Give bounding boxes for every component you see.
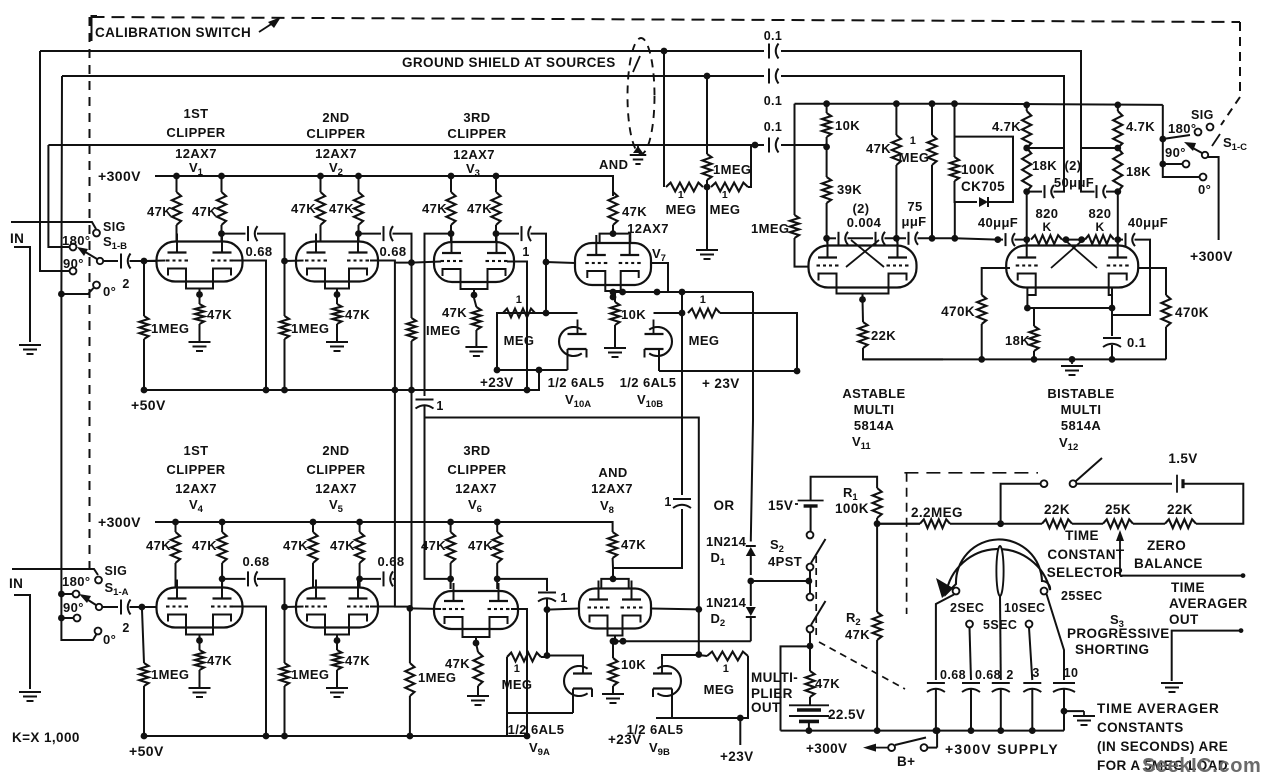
svg-text:(IN SECONDS) ARE: (IN SECONDS) ARE [1097,739,1228,754]
svg-text:2: 2 [122,277,129,291]
svg-text:SIG: SIG [1191,108,1214,122]
svg-text:820: 820 [1089,206,1112,221]
resistor 1 MEG (V10B load) [688,309,720,318]
capacitor 0.1 (bistable cathode) [1111,308,1113,336]
resistor 47K (V8 plate) [608,532,617,558]
resistor 1MEG (V3 grid leak) [411,263,413,318]
V8 right grid [621,606,625,608]
svg-text:47K: 47K [192,538,217,553]
svg-text:+300V: +300V [98,514,141,530]
svg-text:μμF: μμF [901,214,926,229]
svg-text:MEG: MEG [689,333,720,348]
switch S2 section1 [807,532,814,539]
svg-text:1: 1 [436,399,443,413]
ground at shield [633,146,643,153]
svg-text:1/2 6AL5: 1/2 6AL5 [548,375,605,390]
V1 right plate [221,234,223,253]
wire 90 to common [61,617,73,619]
arrow to dashed line [259,21,276,32]
S3 rotor pointer [996,546,1003,596]
svg-text:3RD: 3RD [463,443,490,458]
resistor 47K (V4 right plate) [218,532,227,563]
ground (V7 cathode) [604,347,626,349]
svg-text:PROGRESSIVE: PROGRESSIVE [1067,626,1170,641]
svg-text:22K: 22K [1044,502,1070,517]
V7 cathode common [605,284,620,291]
svg-text:AVERAGER: AVERAGER [1169,596,1248,611]
wire IN terminal to ground (lower) [14,595,30,689]
wire V9B plate feed [662,655,699,659]
resistor 10K (V7 cathode) [614,292,616,302]
svg-text:0.68: 0.68 [380,244,407,259]
svg-text:IMEG: IMEG [426,323,461,338]
V4 right plate [221,580,223,599]
ground (V8 cathode) [602,693,624,695]
V2 right cathode [349,269,367,282]
svg-text:100K: 100K [961,162,995,177]
resistor 4.7K (bistable left) [1026,105,1028,111]
switch S1-A 180 contact [73,591,80,598]
V3 left cathode [443,269,461,282]
capacitor 0.68 (2 sec) [927,682,945,684]
svg-text:CLIPPER: CLIPPER [447,126,506,141]
tube envelope V1 [157,242,243,282]
wire line A drop to MEG divider [663,51,665,187]
wire R1 node to 2.2MEG line [877,523,920,525]
V11 left cathode [819,274,837,287]
svg-text:0°: 0° [103,284,116,299]
resistor 4.7K (bistable right) [1117,105,1119,111]
wire 180 to common [61,593,72,595]
resistor 47K (multiplier) [809,646,811,671]
V1 left grid [166,259,170,261]
wire zero balance out [1120,575,1245,577]
wire S2 to multiplier node [809,632,811,646]
svg-text:0.68: 0.68 [975,668,1001,682]
svg-text:CONSTANT: CONSTANT [1047,547,1125,562]
ground (V1 cathode) [189,341,211,343]
wire +300V bus (lower) [155,522,613,532]
wire line B drop to 1MEG [706,76,708,154]
capacitor 1 (V10B to V8) [673,498,691,500]
svg-text:1: 1 [722,189,728,201]
resistor 820K right [1085,235,1114,244]
svg-text:SHORTING: SHORTING [1075,642,1149,657]
svg-text:12AX7: 12AX7 [453,147,495,162]
battery 22.5V [809,697,811,705]
wire IN to S1-A SIG [12,569,98,575]
astable cross coupling [851,240,884,267]
wire divider to line C [748,145,751,187]
wire S2 s1 to junction [809,570,811,594]
S3 contact 2SEC [953,588,960,595]
capacitor 0.1 (line B) [768,69,770,84]
ground (cap bus) [1073,715,1095,717]
svg-text:10K: 10K [835,118,860,133]
wire V6 right plate to 1 cap [497,579,547,591]
ground shield dashed ellipse [628,38,655,154]
V4 cathode common [186,628,213,635]
resistor 1MEG (astable left) [790,215,799,238]
V3 right grid [486,260,490,262]
switch B+ contact right [921,744,928,751]
svg-text:SIG: SIG [105,564,128,578]
diode 1N214 D1 [750,540,752,542]
wire 75uuF to 40uuF [955,238,998,239]
capacitor 0.68 (5 sec) [962,682,980,684]
V2 right grid [347,259,351,261]
resistor 1MEG (V1 grid leak) [143,261,145,316]
svg-text:1: 1 [516,294,523,306]
wire V8 cathode line [613,640,751,642]
resistor 47K (V5 left plate) [308,532,317,563]
tube envelope V4 [157,588,243,628]
bistable cross coupling [1066,241,1097,268]
resistor 39K (astable) [826,147,828,177]
wire bistable cathode line [1027,288,1112,308]
wire cap to V6 grid [393,578,395,580]
resistor 100K [950,157,959,181]
wire V1 right grid return [233,261,267,391]
V5 right cathode [349,615,367,628]
ground (bistable) [1071,359,1073,364]
V11 left plate [827,238,829,258]
wire V8 left grid feed [547,609,579,610]
svg-text:2: 2 [122,621,129,635]
capacitor 2 (lower input) [120,600,122,615]
wire V2 return to V6 grid link [395,390,410,607]
svg-text:+300V: +300V [1190,248,1233,264]
wire V10B plate feed [654,312,683,314]
svg-text:5814A: 5814A [1061,418,1102,433]
svg-text:10SEC: 10SEC [1004,601,1046,615]
svg-text:180°: 180° [62,574,91,589]
svg-text:470K: 470K [1175,305,1209,320]
svg-text:+300V: +300V [806,741,847,756]
resistor 47K (V1 right plate) [217,192,226,225]
wire MEG right to +23V [720,313,797,371]
svg-text:SeekIC.com: SeekIC.com [1142,755,1261,777]
wire +300V bus (bottom) [781,730,1065,732]
svg-text:1.5V: 1.5V [1168,451,1197,466]
wire S1-C to +300V [1208,157,1219,240]
V8 left cathode [590,616,608,629]
svg-text:1MEG: 1MEG [751,221,789,236]
capacitor 0.004 left [838,232,840,245]
svg-text:12AX7: 12AX7 [455,481,497,496]
wire V3 left plate junction to lower channel [425,234,452,396]
resistor 47K (V3 cathode) [472,307,481,330]
wire MEG box left to +23V rail [497,313,503,370]
capacitor 40uuF left [998,239,1003,241]
switch S1-C 90 contact [1183,161,1190,168]
wire line C (cal switch to astable) [48,144,764,146]
resistor 47K (astable right) [895,104,897,135]
wire V2 left grid feed [285,260,304,263]
svg-text:2ND: 2ND [322,110,349,125]
resistor 1MEG (V6 grid leak) [409,608,411,663]
svg-text:0.68: 0.68 [940,668,966,682]
switch S1-C wiper [1202,152,1208,158]
capacitor 0.68 (V1-V2) [247,226,249,241]
svg-text:ASTABLE: ASTABLE [842,386,905,401]
V11 left grid [817,264,821,266]
resistor 22K (chain 2) [1165,519,1196,528]
V6 left grid [443,608,447,610]
wire V3 leak column to V6 grid [411,390,413,608]
switch S2 section2 [807,594,814,601]
V1 left plate [176,234,178,253]
svg-text:0°: 0° [103,632,116,647]
wire +23V rail (V10A) [497,369,568,371]
25K wiper arrow [1116,530,1124,541]
capacitor 0.1 (line A) [768,44,770,59]
svg-text:1: 1 [678,189,684,201]
V4 left plate [176,580,178,599]
capacitor 10 [1053,682,1075,684]
V3 cathode common [461,282,488,289]
svg-text:4PST: 4PST [768,554,802,569]
svg-text:0°: 0° [1198,182,1211,197]
resistor 47K (V6 left plate) [446,532,455,563]
resistor 1 MEG (V9B) [707,652,748,661]
wire battery to S2 contact [810,506,812,531]
V4 left cathode [168,615,186,628]
resistor 470K (bistable right grid) [1138,268,1166,295]
wire V10A plate feed [503,312,578,314]
svg-text:0.68: 0.68 [378,554,405,569]
wire line A drop to S1-B 90 [40,51,70,271]
V7 left plate [595,235,597,255]
svg-text:+300V SUPPLY: +300V SUPPLY [945,741,1059,757]
svg-text:50μμF: 50μμF [1054,175,1094,190]
switch S1-C SIG contact [1207,124,1214,131]
resistor 10K (V8 cathode) [612,641,614,658]
svg-text:12AX7: 12AX7 [175,146,217,161]
V1 right grid [211,259,215,261]
tube envelope V12 [1006,246,1138,288]
ground (time averager) [1161,682,1183,684]
wire V3 left grid feed [412,262,442,263]
resistor 22K (chain 1) [1042,519,1072,528]
S2 mechanical dashed link [815,556,817,640]
svg-text:K: K [1095,220,1104,234]
V6 left plate [453,583,455,601]
svg-text:OUT: OUT [751,700,781,715]
svg-text:+50V: +50V [131,397,166,413]
capacitor 2 (10 sec) [992,682,1010,684]
wire V6 right grid return [511,609,527,736]
wire cap to V5 grid [257,579,285,607]
V6 right plate [498,583,500,601]
svg-text:+300V: +300V [98,168,141,184]
wire V6 left grid feed [410,607,441,610]
wire +300V bus (upper) [155,176,613,196]
wire V8 right grid feed [651,608,699,611]
svg-text:47K: 47K [468,538,493,553]
V2 right plate [357,234,359,253]
wire V8 plates common [601,579,628,588]
wire 0 to common [61,618,96,640]
wire V7 cathode line [613,292,753,297]
svg-text:SIG: SIG [103,220,126,234]
svg-text:1: 1 [560,591,567,605]
switch S1-A 90 contact [74,615,81,622]
wire S3 contact drops [936,595,954,681]
svg-text:47K: 47K [467,201,492,216]
svg-text:GROUND SHIELD AT SOURCES: GROUND SHIELD AT SOURCES [402,55,616,70]
svg-text:1: 1 [514,663,521,675]
wire line C drop to S1-B 180 [48,145,70,247]
wire V2 right plate to cap [359,233,382,235]
V1 right cathode [213,269,231,282]
wire to 1.5V battery [1076,483,1172,485]
svg-text:0.1: 0.1 [764,29,783,43]
svg-text:47K: 47K [207,307,232,322]
calibration switch label bracket [92,16,98,41]
resistor 47K (V1 cathode) [195,304,204,324]
resistor 47K (V4 cathode) [195,650,204,670]
resistor 18K (bistable cathode) [1033,308,1035,326]
svg-text:AND: AND [599,157,628,172]
svg-text:0.1: 0.1 [1127,335,1146,350]
capacitor 75uuF [908,232,910,245]
ground (V2 cathode) [326,341,348,343]
svg-text:5814A: 5814A [854,418,895,433]
svg-text:47K: 47K [445,656,470,671]
svg-text:2: 2 [1006,668,1013,682]
svg-text:TIME: TIME [1065,528,1099,543]
resistor R1 100K [873,488,882,518]
svg-text:K: K [1042,220,1051,234]
wire V7 right grid stub [651,263,668,292]
V8 cathode common [608,629,623,636]
resistor 47K (V1 left plate) [172,192,181,225]
resistor 47K (V2 left plate) [316,192,325,225]
V3 right cathode [488,269,506,282]
wire bistable top bus [955,104,1163,105]
wire astable coupling row [827,237,836,239]
V3 left grid [441,260,445,262]
V4 left grid [166,605,170,607]
V10A cathode [568,348,587,350]
svg-text:1: 1 [522,245,529,259]
multiplier out bracket [781,646,811,730]
wire wiper to cap [102,606,118,608]
svg-text:1: 1 [664,495,671,509]
resistor 2.2MEG [920,519,950,528]
V1 cathode common [186,282,213,289]
V8 right plate [631,581,633,600]
V6 cathode common [463,630,490,637]
svg-text:MULTI: MULTI [854,402,895,417]
capacitor 40uuF right [1118,239,1123,241]
svg-text:0.68: 0.68 [246,244,273,259]
switch S1-A SIG contact [95,577,102,584]
V7 left grid [585,262,589,264]
resistor 47K (V5 cathode) [332,650,341,670]
resistor MEG (divider right) [711,183,748,192]
svg-text:47K: 47K [345,307,370,322]
svg-text:47K: 47K [147,204,172,219]
resistor 1MEG (V2 grid leak) [284,261,286,316]
svg-text:25K: 25K [1105,502,1131,517]
svg-text:1: 1 [910,135,917,147]
svg-text:22K: 22K [1167,502,1193,517]
ground (upper IN) [19,344,41,346]
2.2MEG dashed box [904,472,1038,474]
wire V9B cathode [671,689,673,719]
V12 left grid [1016,264,1020,266]
svg-text:90°: 90° [1165,145,1186,160]
svg-text:1/2 6AL5: 1/2 6AL5 [627,722,684,737]
V5 left cathode [307,615,325,628]
V9B cathode [653,687,672,689]
V11 right plate [897,238,899,258]
svg-text:MEG: MEG [710,202,741,217]
V9A cathode [573,687,592,689]
wire bistable ground bus [863,358,1166,360]
svg-text:40μμF: 40μμF [978,215,1018,230]
V12 right grid [1107,264,1111,266]
wire to 0 contact [1163,164,1199,177]
wire battery to +300V bus [808,721,810,730]
V8 left grid [588,606,592,608]
svg-text:CLIPPER: CLIPPER [166,125,225,140]
svg-text:PLIER: PLIER [751,686,793,701]
switch (calibrate) contacts [1041,480,1048,487]
wire astable left column [794,104,796,215]
wire cap to V7 left grid [531,234,547,262]
capacitor 0.68 (V5-V6) [383,571,385,586]
svg-text:18K: 18K [1005,333,1030,348]
wire trigger left junction [1027,147,1064,149]
V4 right grid [211,605,215,607]
svg-text:75: 75 [907,199,922,214]
V12 left plate [1026,238,1028,258]
V11 cathode common [837,287,889,294]
svg-text:0.1: 0.1 [764,94,783,108]
wire bus to S1-C [1162,105,1164,164]
tube envelope V7 [575,243,651,285]
wire S1-B to V1 left grid [144,260,166,263]
svg-text:4.7K: 4.7K [1126,119,1155,134]
V10A plate [577,320,579,335]
wire OR bus risers [681,418,683,496]
svg-text:47K: 47K [192,204,217,219]
svg-text:BALANCE: BALANCE [1134,556,1203,571]
capacitor 3 (25 sec) [1023,682,1041,684]
resistor 1 MEG (astable) [931,104,933,135]
tube envelope V5 [296,588,378,628]
diode 1N214 D2 [750,581,752,606]
V12 cathode drops [1027,288,1035,296]
V5 right plate [357,580,359,599]
svg-text:18K: 18K [1032,158,1057,173]
node D junction [747,578,754,585]
S3 contact 25SEC [1041,588,1048,595]
wire battery to chain right [1184,484,1243,524]
wire bistable plate stems [1026,240,1028,245]
wire V7 plates common [600,234,631,243]
V12 right plate [1117,238,1119,258]
svg-text:1MEG: 1MEG [151,321,189,336]
svg-text:47K: 47K [866,141,891,156]
wire link cap to OR bus [425,406,683,418]
V10B cathode [645,348,664,350]
tube envelope V3 [434,242,514,282]
wire to 90 contact [1163,163,1182,165]
